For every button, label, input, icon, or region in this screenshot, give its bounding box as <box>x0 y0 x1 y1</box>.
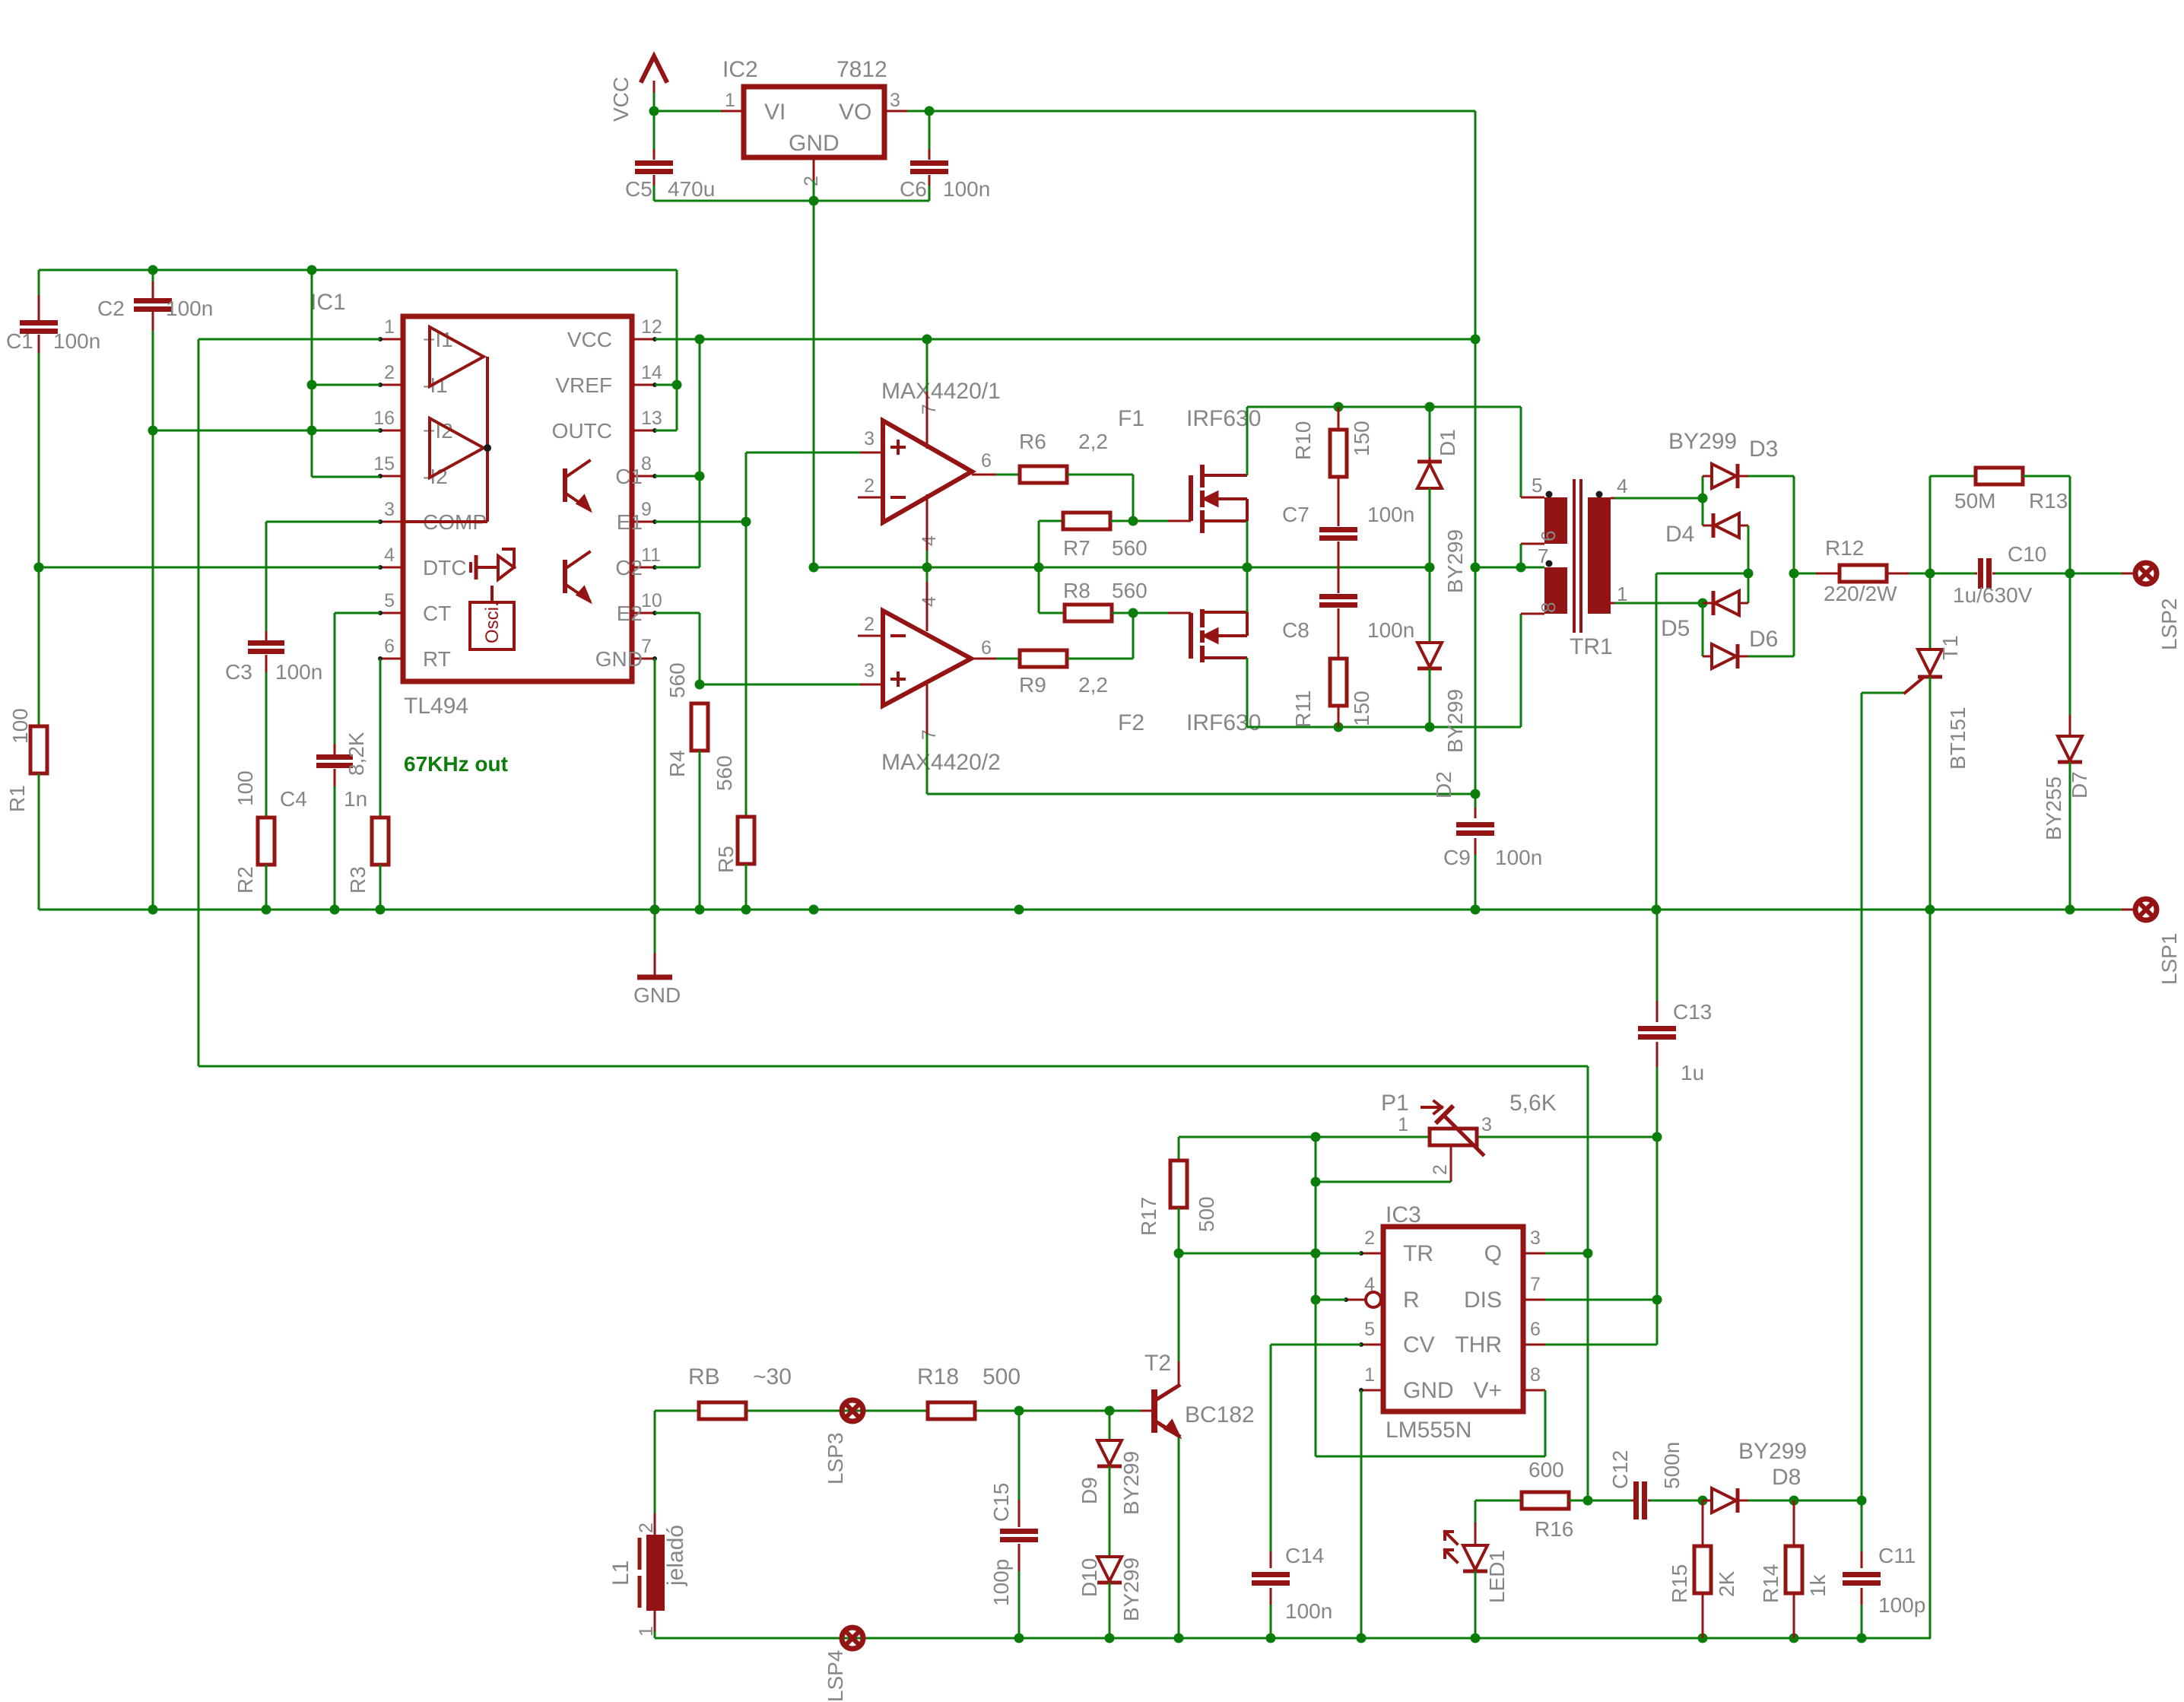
pin 1 +I1 <box>380 338 403 341</box>
pin 12 VCC <box>632 338 655 341</box>
svg-text:VCC: VCC <box>567 328 612 351</box>
wire TR1 pin 1 to bridge <box>1614 602 1703 605</box>
wire C1 C2 outputs to VCC <box>699 339 701 567</box>
diode D7 BY255 <box>2069 573 2071 735</box>
svg-text:LSP2: LSP2 <box>2157 599 2181 651</box>
resistor R13 50M <box>1929 476 1932 573</box>
transformer TR1 core <box>1573 479 1576 633</box>
wire GND pin7 down to rail <box>654 659 656 910</box>
capacitor C14 100n <box>1270 1551 1272 1568</box>
resistor R16 600 <box>1522 1492 1569 1509</box>
svg-text:R13: R13 <box>2029 489 2068 513</box>
capacitor C2 100n <box>152 270 154 281</box>
svg-text:2: 2 <box>636 1523 657 1533</box>
svg-text:BY299: BY299 <box>1119 1558 1143 1621</box>
wire VREF vertical <box>676 270 678 430</box>
svg-text:D10: D10 <box>1078 1558 1101 1597</box>
wire to F2 gate <box>1133 612 1168 614</box>
svg-text:1n: 1n <box>344 787 367 811</box>
svg-text:IC2: IC2 <box>722 57 758 82</box>
svg-text:1: 1 <box>1398 1114 1408 1135</box>
svg-text:4: 4 <box>919 535 940 546</box>
diode D8 BY299 <box>1703 1500 1712 1502</box>
svg-text:8: 8 <box>1530 1364 1541 1386</box>
svg-text:R14: R14 <box>1759 1564 1782 1603</box>
ground symbol GND <box>654 910 656 953</box>
internal transistor Q2 <box>563 560 567 593</box>
svg-text:5: 5 <box>1532 474 1542 497</box>
svg-text:GND: GND <box>595 647 643 671</box>
svg-text:D5: D5 <box>1661 616 1690 641</box>
svg-text:1: 1 <box>1364 1364 1375 1386</box>
wire THR pin6 <box>1545 1344 1657 1346</box>
svg-text:7: 7 <box>1530 1274 1541 1295</box>
svg-text:DTC: DTC <box>423 556 467 580</box>
svg-text:2,2: 2,2 <box>1078 430 1108 453</box>
op-amp U MAX4420/2 <box>883 611 971 706</box>
svg-text:THR: THR <box>1455 1332 1502 1357</box>
pin 5 CT <box>380 612 403 614</box>
svg-text:C4: C4 <box>280 787 307 811</box>
svg-text:560: 560 <box>713 755 736 791</box>
svg-text:BY299: BY299 <box>1443 529 1467 593</box>
wire Q output to R16 C12 <box>1475 1500 1522 1502</box>
capacitor C7 100n <box>1319 527 1357 532</box>
svg-text:BY299: BY299 <box>1443 689 1467 753</box>
svg-text:100p: 100p <box>1878 1593 1925 1617</box>
svg-text:R: R <box>1403 1288 1420 1313</box>
wire pin2 -I1 vertical <box>311 270 313 477</box>
svg-text:7: 7 <box>919 404 940 414</box>
svg-text:5: 5 <box>1364 1319 1375 1340</box>
svg-text:GND: GND <box>633 983 681 1007</box>
wire R pin to P1 node <box>1316 1299 1346 1301</box>
svg-text:3: 3 <box>384 499 395 520</box>
svg-text:2: 2 <box>864 475 875 497</box>
svg-text:GND: GND <box>789 131 840 156</box>
resistor R4 560 <box>691 703 708 751</box>
internal DTC comparator <box>469 562 472 573</box>
svg-text:BY299: BY299 <box>1738 1439 1807 1464</box>
svg-text:S2: S2 <box>1542 580 1565 605</box>
svg-text:Osci.: Osci. <box>482 602 503 643</box>
wire F1 source to ground bus <box>1246 521 1249 567</box>
wire D4 D5 anodes <box>1748 526 1750 603</box>
svg-text:3: 3 <box>1530 1227 1541 1249</box>
pin 7 VCC of MAX4420/1 <box>926 392 929 449</box>
pin 16 +I2 <box>380 430 403 432</box>
svg-text:D1: D1 <box>1436 429 1459 456</box>
svg-text:C14: C14 <box>1285 1544 1324 1567</box>
resistor R3 8,2K <box>379 659 382 818</box>
op-amp error amp 2 inside IC1 <box>430 418 484 478</box>
svg-text:C11: C11 <box>1878 1544 1916 1567</box>
wire center tap <box>1475 567 1544 569</box>
svg-text:IRF630: IRF630 <box>1186 710 1261 735</box>
svg-text:VREF: VREF <box>555 373 612 397</box>
svg-text:T1: T1 <box>1938 635 1962 660</box>
wire top rail C1 C2 VREF <box>39 269 677 271</box>
svg-text:100n: 100n <box>943 177 990 201</box>
svg-text:C5: C5 <box>625 177 652 201</box>
svg-text:D3: D3 <box>1749 437 1778 462</box>
pin stub IC2 pin1 <box>721 110 744 113</box>
wire T2 collector <box>1178 1361 1180 1384</box>
svg-text:R1: R1 <box>5 785 29 812</box>
svg-text:100: 100 <box>8 708 32 744</box>
pin 3 COMP <box>380 521 403 523</box>
wire pin2 -I1 <box>312 384 380 386</box>
svg-text:C8: C8 <box>1282 618 1309 642</box>
pin 15 -I2 <box>380 475 403 478</box>
terminal LSP4 <box>842 1627 863 1649</box>
pin stub IC2 pin3 <box>884 110 907 113</box>
resistor R2 100 <box>258 818 275 865</box>
terminal LSP3 <box>842 1400 863 1421</box>
svg-text:D9: D9 <box>1078 1477 1101 1504</box>
IC3 pin 5 CV <box>1361 1344 1383 1346</box>
svg-text:R6: R6 <box>1019 430 1046 453</box>
svg-text:100n: 100n <box>275 660 322 684</box>
diode D9 BY299 <box>1109 1411 1111 1440</box>
svg-text:CT: CT <box>423 602 451 625</box>
svg-text:IC3: IC3 <box>1386 1202 1421 1227</box>
ground bus DTC left segment <box>39 567 380 569</box>
svg-text:6: 6 <box>1530 1319 1541 1340</box>
resistor R15 2K <box>1702 1500 1704 1546</box>
diode D10 BY299 <box>1097 1557 1122 1581</box>
pin 7 GND <box>632 658 655 660</box>
svg-text:~30: ~30 <box>753 1364 792 1389</box>
svg-text:600: 600 <box>1528 1458 1564 1481</box>
pin 13 OUTC <box>632 430 655 432</box>
capacitor C5 470u <box>653 111 656 149</box>
svg-text:R5: R5 <box>714 846 738 873</box>
svg-text:R4: R4 <box>665 750 689 777</box>
internal wire amps to comp <box>486 357 489 522</box>
capacitor C12 500n <box>1588 1500 1631 1502</box>
svg-text:100n: 100n <box>1495 846 1542 869</box>
terminal LSP2 <box>2135 563 2157 584</box>
resistor R5 560 <box>738 817 754 864</box>
pin stub IC2 pin2 GND <box>813 157 815 180</box>
svg-text:560: 560 <box>665 662 689 698</box>
wire pin16 +I2 <box>153 430 380 432</box>
svg-text:LM555N: LM555N <box>1386 1418 1471 1443</box>
wire to F1 gate <box>1133 520 1168 522</box>
capacitor C8 100n <box>1319 594 1357 599</box>
svg-text:3: 3 <box>864 428 875 449</box>
resistor R17 500 <box>1178 1137 1180 1161</box>
svg-text:1: 1 <box>384 316 395 338</box>
svg-text:1k: 1k <box>1806 1573 1830 1597</box>
capacitor C15 100p <box>1018 1411 1021 1500</box>
wire TR line <box>1179 1253 1361 1255</box>
diode D1 BY299 <box>1429 407 1431 457</box>
resistor R18 500 <box>928 1402 975 1419</box>
svg-text:C15: C15 <box>989 1483 1013 1522</box>
capacitor C3 100n <box>265 631 268 640</box>
svg-text:TL494: TL494 <box>404 694 468 719</box>
svg-text:C9: C9 <box>1443 846 1471 869</box>
diode D4 BY299 <box>1712 513 1716 538</box>
resistor RB ~30 <box>699 1402 746 1419</box>
svg-text:150: 150 <box>1350 421 1373 456</box>
wire drain rail to TR1 pin 5 <box>1520 407 1522 497</box>
svg-text:R17: R17 <box>1137 1197 1160 1236</box>
svg-text:11: 11 <box>641 545 661 566</box>
svg-text:8,2K: 8,2K <box>344 732 368 776</box>
svg-text:D2: D2 <box>1432 771 1455 799</box>
svg-text:4: 4 <box>919 596 940 607</box>
svg-text:E2: E2 <box>617 602 643 625</box>
svg-text:3: 3 <box>864 660 875 681</box>
wire COMP pin3 <box>266 521 380 523</box>
svg-text:5,6K: 5,6K <box>1509 1091 1557 1116</box>
terminal LSP1 <box>2122 909 2134 911</box>
pin 9 E1 <box>632 521 655 523</box>
svg-text:D8: D8 <box>1772 1465 1801 1490</box>
svg-text:1u/630V: 1u/630V <box>1953 583 2033 607</box>
svg-text:R15: R15 <box>1668 1564 1691 1603</box>
pin 4 DTC <box>380 567 403 569</box>
svg-text:100p: 100p <box>989 1559 1013 1606</box>
svg-text:2K: 2K <box>1715 1570 1738 1597</box>
op-amp U MAX4420/1 <box>883 421 972 522</box>
svg-text:C2: C2 <box>615 556 643 580</box>
svg-text:D4: D4 <box>1665 522 1694 547</box>
svg-text:LSP3: LSP3 <box>824 1433 847 1485</box>
wire C13 to DIS THR <box>1656 1137 1659 1345</box>
wire P1 wiper <box>1450 1146 1452 1182</box>
wire OUTC pin13 <box>655 430 677 432</box>
wire CT pin5 to C4 <box>335 612 380 614</box>
thyristor T1 BT151 <box>1929 573 1932 648</box>
wire bridge + rail <box>1793 476 1795 656</box>
svg-text:7: 7 <box>919 729 940 740</box>
svg-text:100n: 100n <box>1367 503 1414 526</box>
svg-text:560: 560 <box>1112 579 1148 602</box>
svg-text:100n: 100n <box>1285 1599 1332 1623</box>
svg-text:6: 6 <box>384 636 395 657</box>
wire MAX4420/2 VCC line <box>927 793 1475 795</box>
svg-text:100n: 100n <box>53 329 100 353</box>
svg-text:L1: L1 <box>608 1561 633 1586</box>
wire F2 drain rail <box>1246 658 1249 727</box>
svg-text:3: 3 <box>1481 1114 1492 1135</box>
IC IC1 TL494 box <box>403 316 632 681</box>
op-amp error amp 1 inside IC1 <box>430 327 484 386</box>
svg-text:BY299: BY299 <box>1119 1451 1143 1515</box>
svg-text:2: 2 <box>801 176 822 186</box>
IC3 pin 6 THR <box>1523 1344 1545 1346</box>
wire E1 pin9 to MAX4420/1 <box>655 521 746 523</box>
potentiometer P1 5,6K <box>1430 1129 1477 1145</box>
capacitor C4 1n <box>334 744 336 754</box>
transistor F2 IRF630 n-mosfet <box>1189 613 1193 659</box>
svg-text:1u: 1u <box>1681 1061 1704 1084</box>
ground wire under IC2 <box>654 200 929 202</box>
svg-text:100: 100 <box>233 770 257 806</box>
wire E2 pin10 to MAX4420/2 <box>655 612 700 614</box>
diode D3 BY299 <box>1703 475 1712 478</box>
IC IC3 LM555N box <box>1383 1227 1523 1411</box>
wire VCC vertical right side <box>1475 111 1477 808</box>
svg-text:E1: E1 <box>617 510 643 534</box>
svg-text:LSP4: LSP4 <box>824 1650 847 1702</box>
svg-text:1: 1 <box>636 1626 657 1637</box>
diode D6 BY299 <box>1703 656 1712 658</box>
svg-text:BY255: BY255 <box>2042 776 2065 840</box>
svg-text:100n: 100n <box>1367 618 1414 642</box>
IC3 pin 3 Q <box>1523 1253 1545 1255</box>
svg-text:7: 7 <box>641 636 652 657</box>
resistor R7 560 <box>1038 521 1040 567</box>
svg-text:500n: 500n <box>1660 1442 1684 1489</box>
wire MAX4420/2 output <box>971 658 996 660</box>
svg-text:F2: F2 <box>1118 710 1144 735</box>
svg-text:R2: R2 <box>233 866 257 894</box>
svg-text:C3: C3 <box>225 660 252 684</box>
wire GND pin1 down <box>1360 1390 1363 1638</box>
voltage regulator IC2 7812 <box>744 87 884 157</box>
svg-text:100n: 100n <box>166 297 213 320</box>
svg-text:15: 15 <box>373 453 395 475</box>
pin 4 GND of MAX4420/1 <box>926 494 929 551</box>
svg-text:S1: S1 <box>1542 508 1565 532</box>
svg-text:2: 2 <box>864 614 875 635</box>
svg-text:T2: T2 <box>1144 1351 1171 1376</box>
svg-text:LSP1: LSP1 <box>2157 933 2181 986</box>
resistor R6 2,2 <box>1020 466 1067 483</box>
ground bus right segment <box>814 567 1430 569</box>
resistor R10 150 <box>1338 407 1340 430</box>
svg-text:R10: R10 <box>1291 421 1315 460</box>
svg-text:D7: D7 <box>2068 771 2091 799</box>
svg-text:BY299: BY299 <box>1668 429 1737 454</box>
wire CV pin5 to C14 <box>1271 1344 1361 1346</box>
capacitor C13 1u <box>1656 910 1659 1001</box>
svg-text:5: 5 <box>384 590 395 611</box>
resistor R11 150 <box>1330 659 1347 706</box>
bottom rail <box>655 1637 1931 1640</box>
wire pin1 +I1 feedback <box>198 338 380 341</box>
wire V+ to P1 node <box>1316 1456 1545 1458</box>
svg-text:10: 10 <box>641 590 662 611</box>
svg-text:VO: VO <box>839 100 871 125</box>
LED LED1 <box>1475 1500 1477 1523</box>
svg-text:4: 4 <box>384 545 395 566</box>
svg-text:IRF630: IRF630 <box>1186 406 1261 431</box>
pin 14 VREF <box>632 384 655 386</box>
wire to LSP2 <box>2070 573 2122 575</box>
resistor R14 1k <box>1793 1500 1795 1546</box>
svg-text:R3: R3 <box>346 866 370 894</box>
svg-text:12: 12 <box>641 316 662 338</box>
svg-text:13: 13 <box>641 408 662 429</box>
svg-text:C2: C2 <box>97 297 125 320</box>
svg-text:150: 150 <box>1350 691 1373 726</box>
thyristor T1 gate wire <box>1862 692 1905 694</box>
pin 8 C1 <box>632 475 655 478</box>
wire bridge - to ground <box>1656 573 1748 575</box>
svg-text:6: 6 <box>981 637 992 659</box>
capacitor C9 100n VCC decoupling <box>1475 808 1477 818</box>
svg-text:LED1: LED1 <box>1485 1550 1509 1603</box>
capacitor C6 100n <box>929 111 931 149</box>
wire T2 emitter <box>1178 1437 1180 1638</box>
wire R18 line <box>655 1410 1141 1412</box>
diode D5 BY299 <box>1712 591 1716 615</box>
wire DIS pin7 <box>1545 1299 1657 1301</box>
resistor R12 220/2W <box>1794 573 1816 575</box>
pin 6 RT <box>380 658 403 660</box>
svg-text:7812: 7812 <box>836 57 887 82</box>
svg-text:MAX4420/2: MAX4420/2 <box>881 750 1001 775</box>
resistor R1 100 <box>30 726 47 773</box>
power supply VCC symbol <box>642 56 666 81</box>
wire P1 node vertical <box>1315 1137 1317 1456</box>
transformer TR1 winding PRI <box>1588 497 1611 614</box>
svg-text:R16: R16 <box>1535 1517 1573 1541</box>
svg-text:2,2: 2,2 <box>1078 673 1108 697</box>
svg-text:560: 560 <box>1112 536 1148 560</box>
svg-text:VI: VI <box>764 100 786 125</box>
svg-text:TR: TR <box>1403 1241 1433 1266</box>
internal transistor Q1 <box>563 468 567 502</box>
svg-text:R8: R8 <box>1063 579 1090 602</box>
svg-text:67KHz out: 67KHz out <box>404 752 508 776</box>
svg-text:C7: C7 <box>1282 503 1309 526</box>
capacitor C10 1u/630V <box>1930 573 1975 575</box>
svg-text:C6: C6 <box>900 177 927 201</box>
transistor T2 BC182 <box>1141 1410 1154 1412</box>
IC3 pin 7 DIS <box>1523 1299 1545 1301</box>
svg-text:PRI: PRI <box>1586 538 1609 570</box>
wire IC2 GND down <box>813 201 815 567</box>
resistor R9 2,2 <box>1020 650 1067 667</box>
svg-text:C13: C13 <box>1673 1000 1712 1024</box>
wire VCC pin12 <box>655 338 1475 341</box>
svg-text:R12: R12 <box>1825 536 1864 560</box>
svg-text:CV: CV <box>1403 1332 1435 1357</box>
internal oscillator box <box>470 602 514 649</box>
svg-text:R11: R11 <box>1291 691 1315 728</box>
svg-text:Q: Q <box>1484 1241 1502 1266</box>
svg-text:4: 4 <box>1617 475 1627 497</box>
IC3 pin 1 GND <box>1361 1389 1383 1392</box>
wire VREF pin14 <box>655 384 677 386</box>
ground rail LSP1 <box>39 909 2122 911</box>
pin 10 E2 <box>632 612 655 614</box>
svg-text:8: 8 <box>641 453 652 475</box>
svg-text:500: 500 <box>982 1364 1021 1389</box>
potentiometer P1 5,6K line <box>1179 1136 1657 1138</box>
pin 4 GND of MAX4420/2 <box>926 582 929 631</box>
resistor R8 560 <box>1038 567 1040 613</box>
IC3 pin 4 R <box>1366 1292 1381 1307</box>
svg-text:MAX4420/1: MAX4420/1 <box>881 379 1001 404</box>
svg-text:3: 3 <box>890 90 900 111</box>
inductor L1 jelado <box>654 1411 656 1513</box>
svg-text:50M: 50M <box>1954 489 1995 513</box>
transformer TR1 winding S1 <box>1544 497 1567 544</box>
pin 7 VCC of MAX4420/2 <box>926 684 929 734</box>
svg-text:C10: C10 <box>2008 542 2046 566</box>
svg-text:14: 14 <box>641 362 662 383</box>
svg-text:470u: 470u <box>668 177 715 201</box>
svg-text:F1: F1 <box>1118 406 1144 431</box>
